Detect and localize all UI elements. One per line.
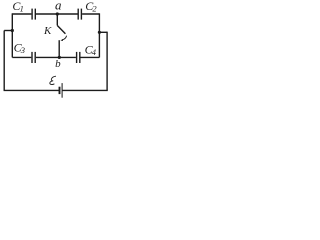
svg-text:3: 3 bbox=[20, 45, 25, 55]
svg-text:K: K bbox=[43, 25, 52, 37]
svg-text:1: 1 bbox=[20, 4, 24, 14]
wire node b to C4 bbox=[59, 56, 76, 58]
wire C4 to mid-right corner bbox=[81, 56, 100, 58]
label C3 bbox=[14, 40, 25, 55]
node a bbox=[56, 12, 59, 15]
wire top-left (corner to C1) bbox=[12, 13, 31, 15]
switch K blade bbox=[57, 25, 65, 33]
capacitor C4 bbox=[77, 52, 80, 63]
svg-text:4: 4 bbox=[92, 47, 97, 57]
wire bottom-right (corner to battery) bbox=[62, 89, 107, 91]
node b bbox=[58, 56, 61, 59]
wire mid-left (corner to C3) bbox=[12, 56, 31, 58]
capacitor C1 bbox=[32, 9, 35, 20]
svg-text:b: b bbox=[55, 58, 61, 70]
wire inner-left vertical bbox=[11, 13, 13, 57]
label C4 bbox=[85, 42, 97, 57]
capacitor C2 bbox=[78, 9, 81, 20]
label C1 bbox=[12, 0, 23, 14]
wire C2 to top-right corner bbox=[82, 13, 99, 15]
wire outer-left vertical bbox=[3, 31, 5, 91]
battery EMF bbox=[60, 83, 63, 98]
switch K lower stub bbox=[58, 40, 60, 57]
node junction left bbox=[11, 29, 14, 32]
svg-text:2: 2 bbox=[92, 4, 97, 14]
node junction right bbox=[98, 31, 101, 34]
wire C1 to node a bbox=[36, 13, 57, 15]
switch K hook bbox=[60, 36, 66, 41]
wire right branch bbox=[99, 31, 107, 33]
wire node a to C2 bbox=[57, 13, 77, 15]
wire C3 to node b bbox=[36, 56, 59, 58]
wire inner-right vertical bbox=[98, 13, 100, 57]
wire bottom-left (battery to corner) bbox=[4, 89, 59, 91]
wire outer-right vertical bbox=[106, 32, 108, 91]
switch K upper stub bbox=[56, 14, 58, 25]
capacitor C3 bbox=[32, 52, 35, 63]
label C2 bbox=[85, 0, 97, 14]
label EMF script E bbox=[50, 76, 56, 84]
svg-text:a: a bbox=[55, 0, 62, 12]
wire left branch bbox=[4, 30, 12, 32]
